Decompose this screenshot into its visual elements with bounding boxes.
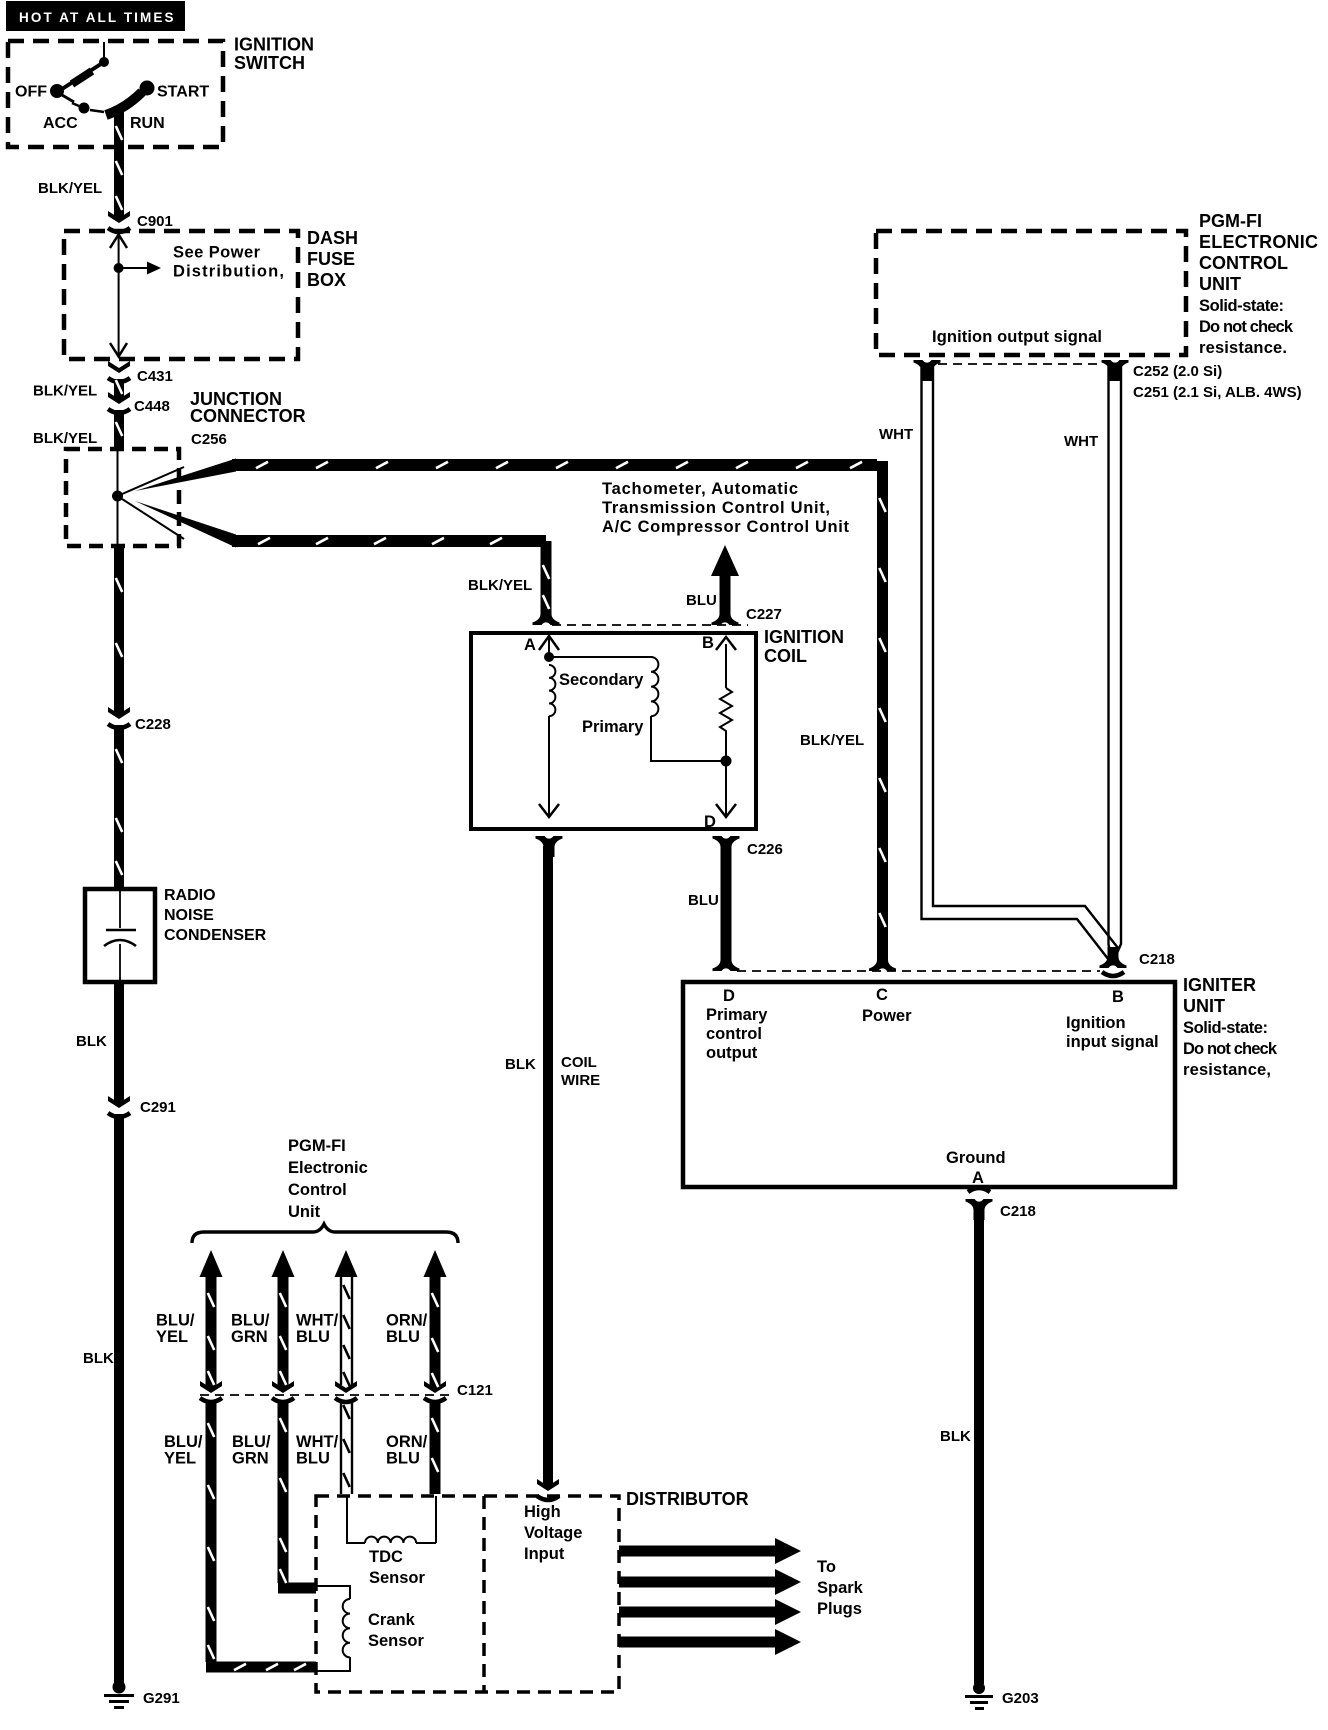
- svg-text:PGM-FI: PGM-FI: [288, 1137, 346, 1155]
- svg-text:COIL: COIL: [561, 1054, 597, 1071]
- svg-text:C291: C291: [140, 1099, 176, 1116]
- svg-text:C226: C226: [747, 841, 783, 858]
- svg-text:BLU: BLU: [386, 1450, 420, 1468]
- svg-text:NOISE: NOISE: [164, 907, 214, 924]
- svg-text:C256: C256: [191, 431, 227, 448]
- svg-text:WHT/: WHT/: [296, 1433, 339, 1451]
- svg-text:See Power: See Power: [173, 244, 261, 262]
- svg-text:WHT/: WHT/: [296, 1312, 339, 1330]
- svg-text:A: A: [972, 1169, 984, 1187]
- svg-text:Unit: Unit: [288, 1203, 321, 1221]
- svg-text:Voltage: Voltage: [524, 1524, 582, 1542]
- svg-text:C251 (2.1 Si, ALB. 4WS): C251 (2.1 Si, ALB. 4WS): [1133, 384, 1302, 401]
- svg-text:Distribution,: Distribution,: [173, 263, 284, 281]
- svg-text:BLU/: BLU/: [231, 1312, 270, 1330]
- svg-text:SWITCH: SWITCH: [234, 53, 305, 73]
- svg-text:GRN: GRN: [232, 1450, 269, 1468]
- svg-text:IGNITION: IGNITION: [234, 35, 314, 55]
- svg-text:resistance.: resistance.: [1199, 339, 1287, 357]
- svg-text:C901: C901: [137, 213, 173, 230]
- svg-text:output: output: [706, 1044, 758, 1062]
- svg-text:Do not check: Do not check: [1183, 1040, 1278, 1058]
- svg-text:UNIT: UNIT: [1199, 274, 1241, 294]
- svg-text:ELECTRONIC: ELECTRONIC: [1199, 232, 1318, 252]
- svg-text:ORN/: ORN/: [386, 1433, 428, 1451]
- svg-text:DISTRIBUTOR: DISTRIBUTOR: [626, 1489, 749, 1509]
- svg-text:CONNECTOR: CONNECTOR: [190, 406, 306, 426]
- svg-text:HOT AT ALL TIMES: HOT AT ALL TIMES: [19, 10, 176, 25]
- svg-text:Secondary: Secondary: [559, 671, 644, 689]
- svg-text:BOX: BOX: [307, 270, 346, 290]
- svg-text:Ignition: Ignition: [1066, 1014, 1126, 1032]
- svg-text:Tachometer, Automatic: Tachometer, Automatic: [602, 480, 798, 498]
- svg-text:B: B: [702, 634, 714, 652]
- svg-text:PGM-FI: PGM-FI: [1199, 211, 1262, 231]
- svg-text:BLK/YEL: BLK/YEL: [33, 383, 97, 400]
- svg-text:BLU/: BLU/: [164, 1433, 203, 1451]
- svg-text:DASH: DASH: [307, 228, 358, 248]
- svg-text:BLU: BLU: [688, 892, 719, 909]
- svg-text:D: D: [723, 987, 735, 1005]
- svg-text:G203: G203: [1002, 1690, 1039, 1707]
- svg-text:resistance,: resistance,: [1183, 1061, 1271, 1079]
- svg-text:ACC: ACC: [43, 115, 78, 132]
- svg-text:Power: Power: [862, 1007, 912, 1025]
- svg-text:WIRE: WIRE: [561, 1072, 600, 1089]
- svg-text:IGNITER: IGNITER: [1183, 975, 1256, 995]
- svg-text:B: B: [1112, 988, 1124, 1006]
- svg-text:BLU/: BLU/: [156, 1312, 195, 1330]
- svg-text:RADIO: RADIO: [164, 887, 216, 904]
- svg-text:A/C Compressor Control Unit: A/C Compressor Control Unit: [602, 518, 850, 536]
- svg-text:Primary: Primary: [706, 1006, 768, 1024]
- svg-text:G291: G291: [143, 1690, 180, 1707]
- svg-text:BLK/YEL: BLK/YEL: [800, 732, 864, 749]
- svg-text:CONDENSER: CONDENSER: [164, 927, 267, 944]
- svg-text:IGNITION: IGNITION: [764, 627, 844, 647]
- svg-text:Transmission Control Unit,: Transmission Control Unit,: [602, 499, 830, 517]
- svg-text:BLU: BLU: [296, 1450, 330, 1468]
- svg-text:C431: C431: [137, 368, 173, 385]
- svg-text:Crank: Crank: [368, 1611, 416, 1629]
- svg-text:COIL: COIL: [764, 646, 807, 666]
- svg-text:Primary: Primary: [582, 718, 644, 736]
- svg-text:A: A: [524, 636, 536, 654]
- svg-text:Control: Control: [288, 1181, 347, 1199]
- svg-text:CONTROL: CONTROL: [1199, 253, 1288, 273]
- svg-text:Solid-state:: Solid-state:: [1199, 297, 1284, 315]
- svg-text:BLU: BLU: [296, 1328, 330, 1346]
- svg-text:BLK: BLK: [76, 1033, 107, 1050]
- svg-text:BLK/YEL: BLK/YEL: [38, 180, 102, 197]
- svg-text:OFF: OFF: [15, 84, 47, 101]
- svg-text:Ignition output signal: Ignition output signal: [932, 328, 1102, 346]
- svg-text:C: C: [876, 986, 888, 1004]
- svg-text:WHT: WHT: [1064, 433, 1098, 450]
- svg-text:Ground: Ground: [946, 1149, 1006, 1167]
- svg-text:TDC: TDC: [369, 1548, 403, 1566]
- svg-text:YEL: YEL: [156, 1328, 188, 1346]
- svg-text:YEL: YEL: [164, 1450, 196, 1468]
- svg-text:RUN: RUN: [130, 115, 165, 132]
- svg-text:C227: C227: [746, 606, 782, 623]
- svg-text:GRN: GRN: [231, 1328, 268, 1346]
- svg-text:BLK: BLK: [940, 1428, 971, 1445]
- svg-text:BLK/YEL: BLK/YEL: [33, 430, 97, 447]
- svg-text:Electronic: Electronic: [288, 1159, 368, 1177]
- svg-text:C252 (2.0 Si): C252 (2.0 Si): [1133, 363, 1222, 380]
- svg-text:C218: C218: [1139, 951, 1175, 968]
- svg-text:High: High: [524, 1503, 561, 1521]
- svg-text:C121: C121: [457, 1382, 493, 1399]
- svg-text:Spark: Spark: [817, 1579, 864, 1597]
- svg-text:D: D: [704, 813, 716, 831]
- svg-text:START: START: [157, 84, 209, 101]
- svg-text:Solid-state:: Solid-state:: [1183, 1019, 1268, 1037]
- svg-text:C228: C228: [135, 716, 171, 733]
- svg-text:FUSE: FUSE: [307, 249, 355, 269]
- svg-text:Do not check: Do not check: [1199, 318, 1294, 336]
- svg-text:ORN/: ORN/: [386, 1312, 428, 1330]
- svg-text:input signal: input signal: [1066, 1033, 1159, 1051]
- svg-text:C448: C448: [134, 398, 170, 415]
- svg-text:UNIT: UNIT: [1183, 996, 1225, 1016]
- svg-text:BLU: BLU: [686, 592, 717, 609]
- svg-text:BLK/YEL: BLK/YEL: [468, 577, 532, 594]
- svg-text:control: control: [706, 1025, 762, 1043]
- svg-text:WHT: WHT: [879, 426, 913, 443]
- svg-text:Sensor: Sensor: [369, 1569, 426, 1587]
- svg-text:Sensor: Sensor: [368, 1632, 425, 1650]
- svg-text:BLK: BLK: [83, 1350, 114, 1367]
- svg-text:BLU: BLU: [386, 1328, 420, 1346]
- svg-text:Plugs: Plugs: [817, 1600, 862, 1618]
- svg-text:Input: Input: [524, 1545, 565, 1563]
- svg-text:BLU/: BLU/: [232, 1433, 271, 1451]
- svg-text:BLK: BLK: [505, 1056, 536, 1073]
- svg-text:To: To: [817, 1558, 836, 1576]
- svg-text:C218: C218: [1000, 1203, 1036, 1220]
